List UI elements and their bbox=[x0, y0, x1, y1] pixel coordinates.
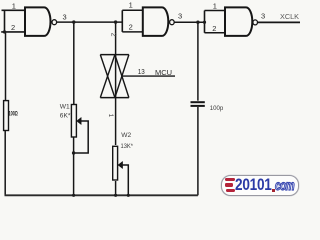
svg-text:1: 1 bbox=[213, 1, 217, 10]
svg-text:W2: W2 bbox=[121, 132, 131, 139]
svg-text:2: 2 bbox=[11, 23, 15, 32]
svg-text:3: 3 bbox=[178, 12, 182, 21]
svg-text:100p: 100p bbox=[210, 105, 224, 112]
svg-text:13: 13 bbox=[138, 67, 145, 76]
svg-text:3: 3 bbox=[261, 11, 265, 20]
svg-text:XCLK: XCLK bbox=[280, 12, 299, 21]
svg-text:2: 2 bbox=[212, 24, 216, 33]
svg-text:W1: W1 bbox=[60, 103, 70, 110]
svg-text:100Ω: 100Ω bbox=[9, 110, 18, 117]
svg-text:6K*: 6K* bbox=[60, 113, 71, 120]
svg-text:2: 2 bbox=[129, 23, 133, 32]
svg-text:1: 1 bbox=[129, 1, 133, 10]
svg-text:1: 1 bbox=[12, 2, 16, 11]
svg-text:MCU: MCU bbox=[155, 68, 172, 77]
svg-text:1: 1 bbox=[107, 114, 114, 118]
svg-text:13K*: 13K* bbox=[121, 143, 134, 150]
svg-text:2: 2 bbox=[110, 33, 117, 37]
svg-text:3: 3 bbox=[63, 12, 67, 21]
